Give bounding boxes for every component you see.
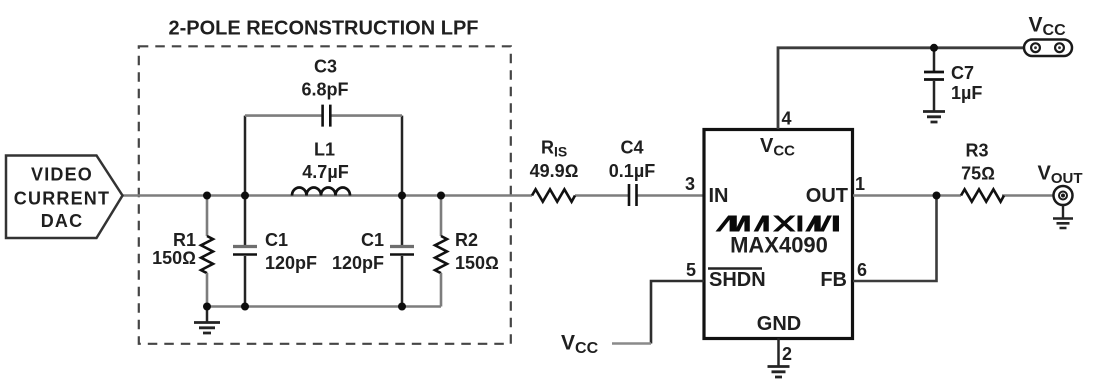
svg-text:SHDN: SHDN (709, 269, 766, 291)
svg-text:R3: R3 (965, 141, 988, 161)
svg-text:4.7µF: 4.7µF (302, 162, 348, 182)
svg-text:VIDEO: VIDEO (31, 165, 93, 185)
svg-text:IN: IN (709, 185, 729, 207)
svg-text:2: 2 (782, 344, 792, 364)
svg-text:FB: FB (820, 269, 847, 291)
svg-text:C1: C1 (361, 230, 384, 250)
svg-text:6.8pF: 6.8pF (301, 80, 348, 100)
svg-text:0.1µF: 0.1µF (609, 161, 655, 181)
svg-text:5: 5 (686, 260, 696, 280)
svg-text:3: 3 (685, 174, 695, 194)
svg-text:MAX4090: MAX4090 (730, 233, 828, 258)
svg-text:49.9Ω: 49.9Ω (530, 161, 579, 181)
svg-text:1: 1 (855, 174, 865, 194)
svg-text:DAC: DAC (41, 211, 84, 231)
svg-text:C3: C3 (314, 57, 337, 77)
svg-text:R2: R2 (455, 230, 478, 250)
svg-text:150Ω: 150Ω (455, 253, 499, 273)
svg-text:150Ω: 150Ω (152, 248, 196, 268)
svg-text:R1: R1 (173, 230, 196, 250)
svg-text:L1: L1 (314, 140, 335, 160)
svg-text:4: 4 (782, 109, 792, 129)
svg-text:75Ω: 75Ω (961, 164, 995, 184)
svg-text:120pF: 120pF (265, 253, 317, 273)
svg-text:C4: C4 (620, 138, 643, 158)
svg-text:2-POLE RECONSTRUCTION LPF: 2-POLE RECONSTRUCTION LPF (168, 18, 478, 40)
svg-text:C1: C1 (265, 230, 288, 250)
svg-text:GND: GND (757, 313, 801, 335)
svg-text:1µF: 1µF (951, 83, 982, 103)
svg-text:120pF: 120pF (332, 253, 384, 273)
svg-text:C7: C7 (951, 63, 974, 83)
svg-text:OUT: OUT (806, 185, 848, 207)
svg-text:6: 6 (857, 260, 867, 280)
svg-text:CURRENT: CURRENT (14, 189, 110, 209)
